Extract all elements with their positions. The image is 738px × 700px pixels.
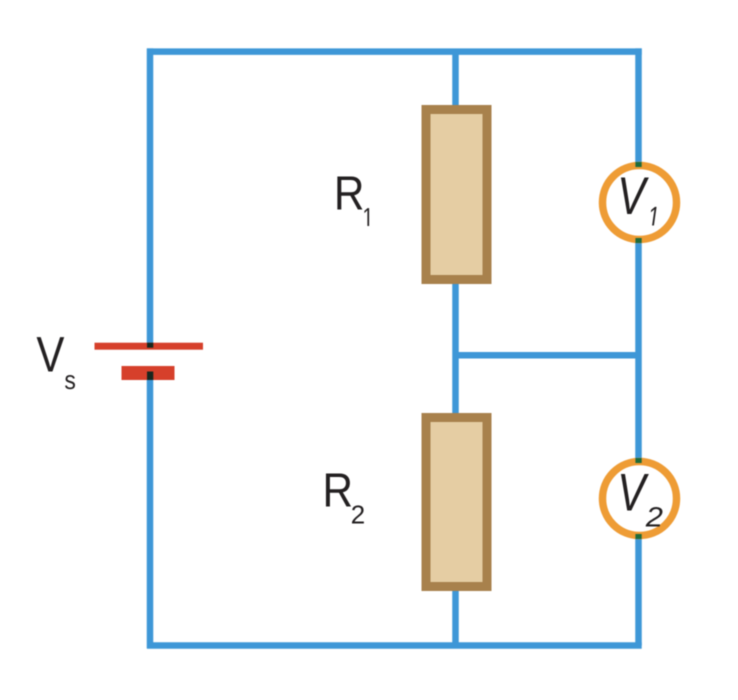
voltmeter V1: green overlap mark bottom — [635, 238, 641, 243]
resistor R2 body — [426, 418, 487, 587]
wire: right vertical branch (through V1 and V2) — [635, 48, 642, 645]
voltmeter V1: green overlap mark top — [635, 162, 641, 167]
label Vs: subscript s — [65, 375, 75, 389]
label R2: letter R — [326, 473, 351, 506]
wire: bottom horizontal — [147, 642, 642, 649]
voltmeter V2: green overlap mark top — [635, 458, 641, 463]
resistor R1 body — [426, 110, 487, 280]
label V2: italic subscript 2 — [646, 507, 663, 527]
wire: top horizontal — [147, 48, 642, 55]
label R1: subscript 1 — [364, 208, 369, 226]
wire: left vertical lower (battery - plate to bottom wire) — [147, 378, 154, 649]
voltmeter V1 circle — [603, 166, 677, 240]
label V2: italic V — [621, 474, 649, 510]
battery Vs: long top plate — [95, 343, 204, 350]
wire: horizontal junction between R1/R2 node and right branch — [456, 352, 639, 359]
voltmeter V2: green overlap mark bottom — [635, 534, 641, 539]
wire: middle vertical branch (through R1 and R2) — [452, 52, 459, 646]
label Vs: letter V — [37, 337, 65, 371]
battery Vs: junction mark wire over top plate — [147, 343, 153, 348]
label V1: italic V — [621, 178, 649, 214]
voltmeter V2 circle — [603, 462, 677, 536]
wire: left vertical upper (top wire to battery + plate) — [147, 48, 154, 343]
label V1: italic subscript 1 — [651, 207, 657, 226]
label R2: subscript 2 — [352, 505, 364, 523]
label R1: letter R — [337, 176, 362, 209]
battery Vs: junction mark wire over bottom plate — [147, 372, 153, 381]
battery Vs: short thick bottom plate — [122, 366, 175, 380]
